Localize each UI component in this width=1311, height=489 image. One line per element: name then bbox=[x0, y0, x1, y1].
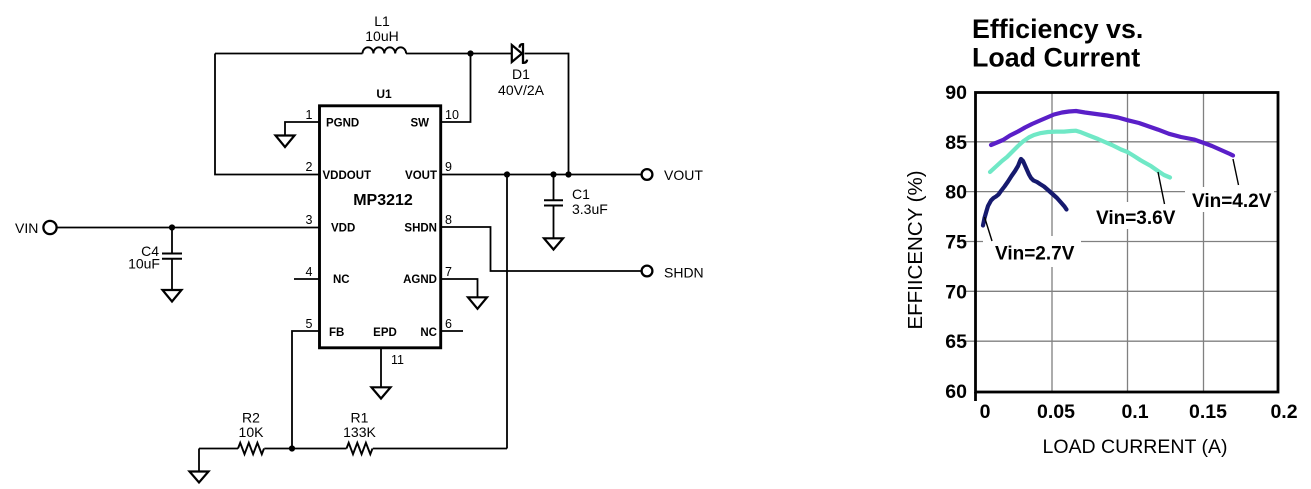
svg-text:L1: L1 bbox=[374, 13, 390, 29]
svg-text:2: 2 bbox=[306, 160, 313, 174]
svg-text:AGND: AGND bbox=[403, 274, 437, 286]
svg-text:10uF: 10uF bbox=[128, 256, 160, 272]
wire pin1 PGND bbox=[285, 122, 319, 136]
svg-text:VOUT: VOUT bbox=[405, 170, 437, 182]
junction C1 tap bbox=[550, 171, 556, 177]
svg-text:7: 7 bbox=[445, 265, 452, 279]
svg-text:C1: C1 bbox=[572, 186, 590, 202]
svg-text:SHDN: SHDN bbox=[664, 265, 704, 281]
ground C1 bbox=[544, 238, 563, 249]
resistor R1 bbox=[347, 443, 373, 454]
ground R2 bbox=[190, 472, 209, 483]
leader line 3.6V bbox=[1158, 172, 1165, 204]
svg-text:90: 90 bbox=[945, 82, 967, 104]
plot border bbox=[976, 93, 1279, 393]
svg-text:0: 0 bbox=[980, 401, 991, 423]
terminal SHDN bbox=[642, 266, 653, 277]
wire pin6 NC stub bbox=[441, 330, 463, 332]
svg-text:U1: U1 bbox=[376, 87, 392, 101]
wire top loop left horizontal bbox=[215, 53, 363, 55]
svg-text:SW: SW bbox=[410, 118, 429, 130]
curve Vin=4.2V purple bbox=[991, 111, 1233, 156]
svg-text:75: 75 bbox=[945, 232, 967, 254]
white box behind label 4.2V bbox=[1185, 187, 1274, 212]
svg-text:Vin=4.2V: Vin=4.2V bbox=[1192, 191, 1272, 212]
ground EPD bbox=[372, 387, 391, 398]
svg-text:FB: FB bbox=[329, 327, 344, 339]
svg-text:133K: 133K bbox=[343, 424, 376, 440]
svg-text:85: 85 bbox=[945, 132, 967, 154]
terminal VOUT bbox=[642, 169, 653, 180]
leader line 2.7V bbox=[985, 217, 993, 241]
svg-text:EPD: EPD bbox=[373, 327, 397, 339]
white box behind label 2.7V bbox=[983, 236, 1081, 267]
svg-text:4: 4 bbox=[306, 265, 313, 279]
svg-text:Load Current: Load Current bbox=[972, 43, 1140, 73]
wire VIN to pin3 VDD bbox=[56, 227, 319, 229]
diode D1 schottky bbox=[512, 44, 527, 63]
svg-text:1: 1 bbox=[306, 108, 313, 122]
resistor R2 bbox=[238, 443, 264, 454]
svg-text:65: 65 bbox=[945, 331, 967, 353]
svg-text:10K: 10K bbox=[239, 424, 265, 440]
capacitor C4 bbox=[162, 228, 182, 291]
wire pin11 EPD down bbox=[380, 348, 382, 387]
junction diode node bbox=[565, 171, 571, 177]
svg-text:0.15: 0.15 bbox=[1189, 401, 1227, 423]
wire pin4 NC stub bbox=[294, 278, 319, 280]
ground pin1 bbox=[276, 136, 295, 148]
ground C4 bbox=[163, 290, 182, 302]
svg-text:NC: NC bbox=[420, 327, 437, 339]
wire pin10 SW bbox=[441, 54, 471, 123]
wire left vertical VDDOUT loop bbox=[215, 54, 319, 175]
svg-text:0.1: 0.1 bbox=[1121, 401, 1148, 423]
svg-text:Vin=2.7V: Vin=2.7V bbox=[995, 244, 1075, 265]
wire pin5 FB down to divider bbox=[292, 331, 319, 449]
ground AGND bbox=[468, 297, 487, 309]
white box behind label 3.6V bbox=[1089, 202, 1181, 229]
IC U1 MP3212 body bbox=[320, 106, 441, 348]
svg-text:6: 6 bbox=[445, 317, 452, 331]
wire bottom divider left segment bbox=[199, 448, 238, 450]
svg-text:VIN: VIN bbox=[15, 220, 38, 236]
svg-text:9: 9 bbox=[445, 160, 452, 174]
wire pin7 AGND bbox=[441, 279, 478, 297]
junction C4 tap bbox=[169, 224, 175, 230]
wire inductor to diode bbox=[406, 53, 512, 55]
svg-text:0.2: 0.2 bbox=[1270, 401, 1297, 423]
svg-text:VDDOUT: VDDOUT bbox=[323, 170, 372, 182]
svg-text:Vin=3.6V: Vin=3.6V bbox=[1096, 208, 1176, 229]
curve Vin=2.7V navy bbox=[983, 159, 1067, 226]
terminal VIN bbox=[43, 221, 56, 234]
junction FB node bbox=[289, 445, 295, 451]
svg-text:MP3212: MP3212 bbox=[353, 192, 413, 209]
svg-text:NC: NC bbox=[333, 274, 350, 286]
svg-text:D1: D1 bbox=[512, 66, 530, 82]
svg-text:40V/2A: 40V/2A bbox=[498, 82, 545, 98]
svg-text:80: 80 bbox=[945, 182, 967, 204]
gridlines horizontal bbox=[965, 142, 1277, 341]
svg-text:70: 70 bbox=[945, 281, 967, 303]
inductor L1 bbox=[363, 47, 407, 53]
curve Vin=3.6V teal bbox=[990, 131, 1170, 178]
svg-text:SHDN: SHDN bbox=[404, 223, 437, 235]
capacitor C1 bbox=[544, 175, 563, 239]
wire R1 to feedback vertical bbox=[373, 448, 507, 450]
svg-text:LOAD CURRENT (A): LOAD CURRENT (A) bbox=[1043, 436, 1228, 458]
svg-text:PGND: PGND bbox=[326, 118, 359, 130]
svg-text:10uH: 10uH bbox=[365, 28, 398, 44]
wire diode to right corner down to VOUT rail bbox=[525, 54, 569, 175]
wire pin8 SHDN to terminal bbox=[441, 227, 641, 271]
svg-text:0.05: 0.05 bbox=[1037, 401, 1075, 423]
wire ground stem bottom left bbox=[198, 449, 200, 472]
svg-text:3: 3 bbox=[306, 213, 313, 227]
wire feedback vertical VOUT to R1 bbox=[506, 175, 508, 449]
svg-text:VDD: VDD bbox=[331, 223, 355, 235]
svg-text:5: 5 bbox=[306, 317, 313, 331]
svg-text:11: 11 bbox=[391, 353, 404, 367]
svg-text:VOUT: VOUT bbox=[664, 167, 703, 183]
svg-text:10: 10 bbox=[445, 108, 459, 122]
svg-text:Efficiency vs.: Efficiency vs. bbox=[972, 14, 1143, 44]
axis corner stub bbox=[974, 392, 977, 401]
junction SW node bbox=[467, 50, 473, 56]
wire pin9 VOUT rail bbox=[441, 174, 641, 176]
wire R2 to junction bbox=[264, 448, 346, 450]
svg-text:3.3uF: 3.3uF bbox=[572, 201, 608, 217]
svg-text:8: 8 bbox=[445, 213, 452, 227]
svg-text:EFFIICENCY (%): EFFIICENCY (%) bbox=[904, 170, 927, 329]
gridlines vertical bbox=[1052, 93, 1204, 392]
svg-text:60: 60 bbox=[945, 381, 967, 403]
junction VOUT feedback node bbox=[504, 171, 510, 177]
leader line 4.2V bbox=[1233, 159, 1239, 185]
